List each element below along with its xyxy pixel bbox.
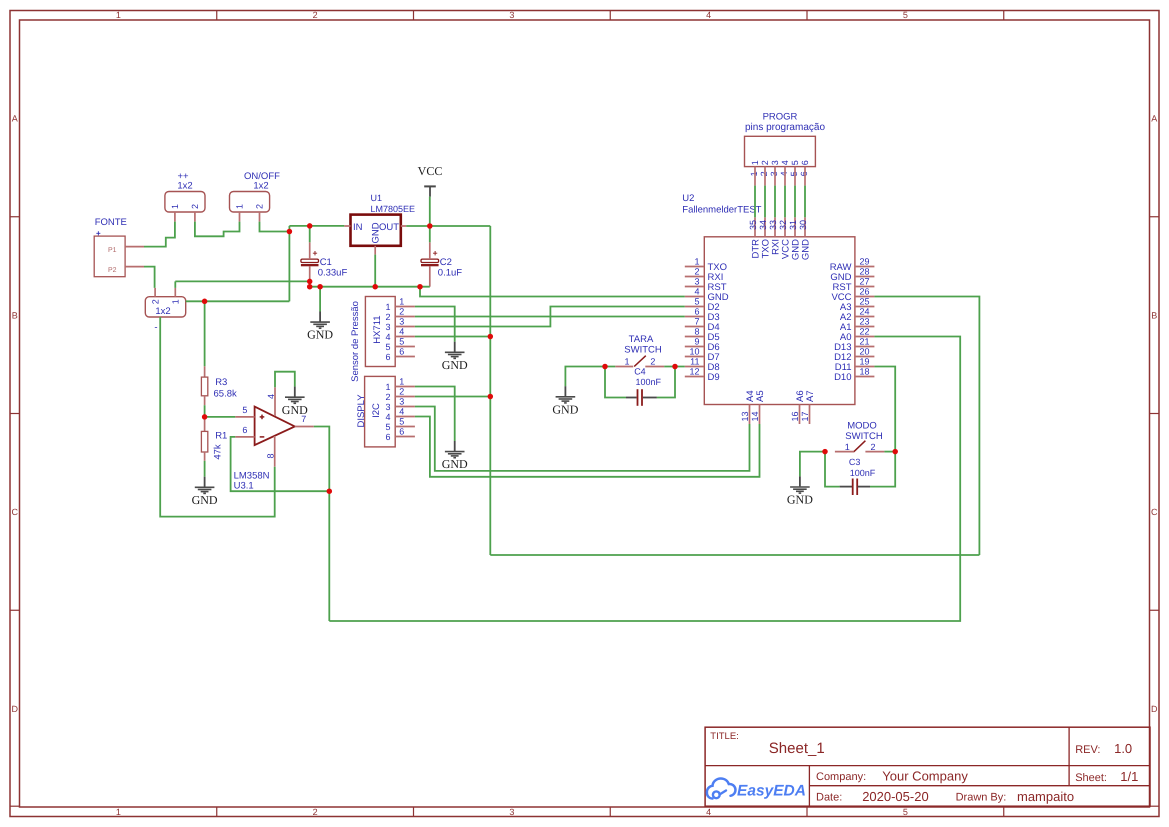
1x2 pin 2 stub <box>154 288 156 297</box>
svg-text:1x2: 1x2 <box>155 306 170 317</box>
junction HX711 pin4 VCC <box>488 334 494 340</box>
svg-text:6: 6 <box>385 352 390 362</box>
svg-text:2: 2 <box>759 171 769 176</box>
svg-text:23: 23 <box>860 317 870 327</box>
svg-text:1/1: 1/1 <box>1120 769 1138 784</box>
svg-text:R1: R1 <box>215 430 227 441</box>
junction U1 GND at rail2 <box>372 284 378 290</box>
wire C3 loop left <box>825 452 840 487</box>
svg-text:GND: GND <box>552 402 578 416</box>
capacitor C2 0.1uF <box>421 248 462 278</box>
wire I2C pin4 to U2 A5 pin14 <box>415 417 760 477</box>
svg-text:6: 6 <box>800 160 810 165</box>
svg-text:3: 3 <box>385 402 390 412</box>
svg-text:0.33uF: 0.33uF <box>318 267 348 278</box>
ground under R1 <box>192 477 218 507</box>
ground at TARA switch <box>552 386 578 416</box>
++ pin 2 stub <box>194 212 196 222</box>
wire C3 loop right <box>870 452 895 487</box>
wire I2C pin3 to U2 A4 pin13 <box>415 407 750 471</box>
wire U1 GND pin down to rail <box>374 255 376 287</box>
svg-text:pins programação: pins programação <box>745 122 825 133</box>
ground at I2C pin1 <box>442 441 468 471</box>
wire ON/OFF pin2 to node <box>260 222 290 232</box>
svg-text:16: 16 <box>790 411 800 421</box>
svg-text:EasyEDA: EasyEDA <box>737 782 806 799</box>
svg-text:4: 4 <box>780 160 790 165</box>
wire C1 top connection <box>309 226 311 242</box>
svg-text:4: 4 <box>266 394 276 399</box>
svg-text:D9: D9 <box>708 372 720 383</box>
svg-text:3: 3 <box>769 171 779 176</box>
svg-text:11: 11 <box>690 357 699 367</box>
svg-text:GND: GND <box>787 493 813 507</box>
svg-text:3: 3 <box>509 807 514 817</box>
svg-text:SWITCH: SWITCH <box>624 344 662 355</box>
pin P2 stub <box>125 266 144 268</box>
junction R3-R1 divider node <box>202 414 208 420</box>
svg-text:47k: 47k <box>212 444 223 460</box>
svg-text:22: 22 <box>860 327 870 337</box>
wire VCC vertical x=490 <box>489 226 491 555</box>
svg-text:18: 18 <box>860 367 870 377</box>
wire U1 IN rail <box>289 225 344 227</box>
svg-text:6: 6 <box>799 171 809 176</box>
svg-text:6: 6 <box>399 347 404 357</box>
svg-text:32: 32 <box>778 220 788 230</box>
svg-text:U3.1: U3.1 <box>234 480 254 491</box>
1x2 pin 1 stub <box>174 288 176 297</box>
wire gnd rail 1 (y=281) <box>175 280 309 282</box>
U3.1 pin 7 output stub <box>295 414 314 426</box>
svg-text:1: 1 <box>385 382 390 392</box>
ON/OFF pin 2 stub <box>259 212 261 222</box>
connector Sensor de Pressao HX711 <box>350 297 404 382</box>
svg-text:24: 24 <box>860 307 870 317</box>
svg-text:mampaito: mampaito <box>1017 789 1074 804</box>
svg-text:1: 1 <box>235 204 245 209</box>
svg-text:13: 13 <box>740 411 750 421</box>
svg-text:6: 6 <box>694 307 699 317</box>
junction C1 at rail1 <box>307 279 313 285</box>
wire U1 OUT rail to VCC corner <box>406 225 490 227</box>
pin P1 stub <box>125 246 144 248</box>
svg-text:-: - <box>154 322 157 333</box>
svg-text:21: 21 <box>860 337 870 347</box>
svg-text:GND: GND <box>192 493 218 507</box>
svg-text:C3: C3 <box>849 457 861 467</box>
C1 top lead <box>309 242 311 259</box>
svg-text:27: 27 <box>860 277 870 287</box>
svg-text:2: 2 <box>650 356 655 366</box>
svg-text:2: 2 <box>190 204 200 209</box>
U3.1 pin 8 V- stub <box>266 436 276 467</box>
wire node to 1x2 row <box>186 300 290 302</box>
wire ++ pin2 to ON/OFF pin1 <box>195 222 240 237</box>
svg-text:2: 2 <box>399 387 404 397</box>
svg-text:2020-05-20: 2020-05-20 <box>862 789 929 804</box>
svg-text:29: 29 <box>860 257 870 267</box>
junction R3 node <box>202 299 208 305</box>
I2C pin stubs <box>395 387 415 437</box>
svg-text:A: A <box>12 114 18 124</box>
svg-text:20: 20 <box>860 347 870 357</box>
svg-text:2: 2 <box>313 10 318 20</box>
wire MODO right to riser <box>884 451 895 453</box>
connector DISPLY I2C <box>356 376 404 447</box>
capacitor C3 100nF <box>840 457 876 495</box>
svg-text:FallenmelderTEST: FallenmelderTEST <box>682 205 761 216</box>
U1 OUT pin stub <box>401 225 406 227</box>
svg-text:U1: U1 <box>371 193 383 203</box>
++ pin 1 stub <box>174 212 176 222</box>
svg-text:1.0: 1.0 <box>1114 741 1132 756</box>
svg-text:1: 1 <box>694 257 699 267</box>
svg-text:5: 5 <box>385 342 390 352</box>
svg-text:I2C: I2C <box>371 403 382 418</box>
wire vertical feed at x=289 <box>288 226 290 301</box>
svg-text:+: + <box>433 248 438 258</box>
connector 1x2 (flipped, negative rail) <box>145 297 185 333</box>
svg-text:1x2: 1x2 <box>177 181 192 192</box>
svg-text:5: 5 <box>789 171 799 176</box>
svg-text:4: 4 <box>706 10 711 20</box>
svg-text:3: 3 <box>509 10 514 20</box>
switch TARA SWITCH <box>615 334 664 367</box>
junction C1 at rail2 <box>307 284 313 290</box>
connector FONTE (P1/P2 source) <box>94 217 127 277</box>
svg-text:8: 8 <box>266 453 276 458</box>
svg-text:R3: R3 <box>215 377 227 388</box>
svg-text:4: 4 <box>385 332 390 342</box>
svg-text:5: 5 <box>694 297 699 307</box>
svg-text:GND: GND <box>307 328 333 342</box>
svg-text:35: 35 <box>748 220 758 230</box>
U3.1 pin 5 non-inverting input stub <box>235 405 254 417</box>
svg-text:4: 4 <box>706 807 711 817</box>
wire TARA left to GND <box>565 367 615 387</box>
svg-text:P2: P2 <box>108 267 117 274</box>
svg-text:C: C <box>1151 507 1158 517</box>
svg-text:6: 6 <box>399 427 404 437</box>
ground at HX711 pin1 <box>442 342 468 372</box>
junction TARA left node <box>602 364 608 370</box>
svg-text:1: 1 <box>116 807 121 817</box>
op-amp U3.1 LM358N <box>234 407 295 492</box>
ON/OFF pin 1 stub <box>239 212 241 222</box>
svg-text:28: 28 <box>860 267 870 277</box>
svg-text:12: 12 <box>689 367 699 377</box>
IC U2 FallenmelderTEST <box>682 193 855 405</box>
wire VCC symbol drop <box>429 197 431 226</box>
svg-text:Date:: Date: <box>816 792 842 804</box>
wire opamp pin6 feedback loop <box>231 437 330 491</box>
capacitor C4 100nF <box>626 367 662 406</box>
svg-text:+: + <box>313 248 318 258</box>
U2 left pins 1-12 <box>685 257 729 384</box>
wire HX711 pin3 to U2 D2 <box>415 307 685 327</box>
svg-text:5: 5 <box>399 337 404 347</box>
svg-text:1: 1 <box>750 160 760 165</box>
svg-text:1: 1 <box>171 299 181 304</box>
svg-text:GND: GND <box>801 239 812 260</box>
svg-text:REV:: REV: <box>1075 744 1100 756</box>
ground at opamp pin4 <box>282 387 308 417</box>
svg-text:GND: GND <box>442 358 468 372</box>
wire VCC bottom run y=555 <box>490 554 979 556</box>
svg-text:VCC: VCC <box>418 164 443 178</box>
svg-text:5: 5 <box>399 417 404 427</box>
svg-text:P1: P1 <box>108 247 117 254</box>
junction opamp feedback node <box>327 488 333 494</box>
svg-text:GND: GND <box>371 222 382 243</box>
svg-text:0.1uF: 0.1uF <box>438 267 462 278</box>
svg-text:2: 2 <box>313 807 318 817</box>
junction rail2 branch to U2 <box>417 284 423 290</box>
wire I2C pin2 to VCC vertical <box>415 396 490 398</box>
wire C1 bottom between rails <box>309 281 311 286</box>
svg-text:1: 1 <box>749 171 759 176</box>
svg-text:Sheet:: Sheet: <box>1075 772 1107 784</box>
wire R1 bottom to GND <box>204 461 206 477</box>
svg-text:34: 34 <box>758 220 768 230</box>
connector ++ 1x2 <box>165 171 205 212</box>
svg-text:1: 1 <box>624 356 629 366</box>
svg-text:SWITCH: SWITCH <box>845 431 883 442</box>
svg-text:LM7805EE: LM7805EE <box>371 204 416 214</box>
svg-text:33: 33 <box>768 220 778 230</box>
svg-text:D10: D10 <box>834 372 851 383</box>
svg-text:A5: A5 <box>755 390 766 402</box>
svg-text:100nF: 100nF <box>850 468 876 478</box>
junction C1 top on IN rail <box>307 223 313 229</box>
svg-text:2: 2 <box>255 204 265 209</box>
PROGR pin stubs <box>755 167 805 186</box>
wire HX711 pin1 to GND <box>415 307 455 342</box>
svg-text:1: 1 <box>845 442 850 452</box>
wire VCC riser to U2 pin26 <box>874 297 979 556</box>
svg-text:6: 6 <box>242 425 247 435</box>
svg-text:2: 2 <box>385 312 390 322</box>
svg-text:D: D <box>1151 704 1158 714</box>
svg-text:25: 25 <box>860 297 870 307</box>
wire C4 loop right <box>657 367 675 398</box>
HX711 pin stubs <box>395 307 415 357</box>
svg-text:MODO: MODO <box>847 420 877 431</box>
svg-text:PROGR: PROGR <box>763 111 798 122</box>
capacitor C1 0.33uF <box>301 248 348 278</box>
U1 GND pin stub <box>374 246 376 255</box>
svg-text:5: 5 <box>385 422 390 432</box>
wire node down to R3 <box>204 301 206 366</box>
junction ON/OFF node <box>287 229 293 235</box>
svg-text:B: B <box>1151 310 1157 320</box>
svg-text:2: 2 <box>870 442 875 452</box>
svg-text:GND: GND <box>442 457 468 471</box>
svg-text:14: 14 <box>750 411 760 421</box>
wire P2 to 1x2 pin2 <box>144 267 155 288</box>
wire HX711 pin2 to U2 D3 <box>415 316 685 318</box>
wire opamp pin4 to GND <box>275 372 295 388</box>
svg-text:1: 1 <box>399 297 404 307</box>
svg-text:DISPLY: DISPLY <box>356 394 367 428</box>
svg-text:Company:: Company: <box>816 771 866 783</box>
svg-text:U2: U2 <box>682 193 694 204</box>
C2 bottom lead <box>429 266 431 286</box>
wire HX711 pin4 to VCC vertical <box>415 336 490 338</box>
junction MODO right node <box>892 449 898 455</box>
svg-text:7: 7 <box>694 317 699 327</box>
resistor R1 47k <box>201 420 227 461</box>
wire gnd rail branch to U2 pin4 GND <box>420 287 685 297</box>
wire left negative rail down <box>160 317 275 517</box>
wire TARA to U2 D8 pin11 <box>664 366 685 368</box>
svg-text:Your Company: Your Company <box>882 769 968 784</box>
C1 bottom lead <box>309 266 311 281</box>
svg-text:2: 2 <box>399 307 404 317</box>
svg-text:3: 3 <box>770 160 780 165</box>
svg-text:17: 17 <box>800 411 810 421</box>
svg-text:1x2: 1x2 <box>253 181 268 192</box>
svg-text:5: 5 <box>903 807 908 817</box>
wire 1x2 pin1 up to gnd rail <box>174 281 176 288</box>
svg-text:FONTE: FONTE <box>95 217 127 228</box>
wire P1 to ++ pin1 <box>144 222 175 247</box>
svg-text:GND: GND <box>282 403 308 417</box>
svg-text:Sensor de Pressão: Sensor de Pressão <box>350 301 361 382</box>
junction VCC on OUT rail <box>427 223 433 229</box>
svg-text:Drawn By:: Drawn By: <box>956 792 1007 804</box>
ground under C1 <box>307 287 333 342</box>
U2 bottom pins 13,14,16,17 <box>740 390 816 424</box>
svg-text:10: 10 <box>689 347 699 357</box>
svg-text:31: 31 <box>788 220 798 230</box>
svg-text:8: 8 <box>694 327 699 337</box>
svg-text:3: 3 <box>694 277 699 287</box>
svg-text:5: 5 <box>242 405 247 415</box>
wire U2 D11 pin19 to MODO <box>874 367 895 452</box>
wire R3 R1 junction to opamp pin5 <box>204 405 206 419</box>
svg-text:4: 4 <box>385 412 390 422</box>
svg-text:19: 19 <box>860 357 870 367</box>
U2 right pins 29-18 <box>830 257 875 384</box>
svg-text:HX711: HX711 <box>372 315 383 343</box>
svg-text:30: 30 <box>798 220 808 230</box>
wire I2C pin1 to GND <box>415 387 455 442</box>
connector ON/OFF 1x2 <box>230 171 281 212</box>
svg-text:4: 4 <box>779 171 789 176</box>
svg-text:1: 1 <box>385 302 390 312</box>
svg-text:C: C <box>11 507 18 517</box>
svg-text:IN: IN <box>353 222 363 233</box>
regulator U1 LM7805EE <box>351 193 416 246</box>
svg-text:5: 5 <box>903 10 908 20</box>
svg-text:B: B <box>12 310 18 320</box>
wire opamp output down <box>314 427 330 622</box>
svg-text:4: 4 <box>399 327 404 337</box>
svg-text:9: 9 <box>694 337 699 347</box>
junction MODO left node <box>822 449 828 455</box>
wire MODO left to GND <box>800 452 825 477</box>
wires PROGR to U2 top pins <box>755 186 805 218</box>
junction I2C pin2 VCC <box>488 394 494 400</box>
svg-text:26: 26 <box>860 287 870 297</box>
svg-text:Sheet_1: Sheet_1 <box>769 740 825 757</box>
svg-text:TITLE:: TITLE: <box>710 731 739 742</box>
svg-text:65.8k: 65.8k <box>214 389 237 400</box>
EasyEDA logo <box>707 779 806 800</box>
title block <box>705 727 1150 806</box>
junction TARA right node <box>672 364 678 370</box>
svg-text:5: 5 <box>790 160 800 165</box>
power flag VCC <box>418 164 443 197</box>
svg-text:OUT: OUT <box>379 222 399 233</box>
svg-text:2: 2 <box>385 392 390 402</box>
U1 IN pin stub <box>344 225 350 227</box>
svg-text:A7: A7 <box>805 390 816 402</box>
svg-text:1: 1 <box>116 10 121 20</box>
C2 top lead <box>429 242 431 259</box>
svg-text:3: 3 <box>399 317 404 327</box>
svg-text:2: 2 <box>150 299 160 304</box>
svg-text:6: 6 <box>385 432 390 442</box>
svg-text:100nF: 100nF <box>636 377 662 387</box>
svg-text:A: A <box>1151 114 1157 124</box>
svg-text:4: 4 <box>694 287 699 297</box>
wire C2 top connection <box>429 226 431 242</box>
wire output run to U2 A0 pin22 <box>329 337 960 622</box>
wire C4 loop left <box>605 367 626 398</box>
svg-text:4: 4 <box>399 407 404 417</box>
U2 top pins 35-30 <box>748 217 812 260</box>
svg-text:1: 1 <box>170 204 180 209</box>
svg-text:2: 2 <box>694 267 699 277</box>
junction gnd stem at rail2 <box>317 284 323 290</box>
resistor R3 65.8k <box>201 366 237 405</box>
U3.1 pin 4 V+ stub <box>266 387 276 416</box>
svg-text:1: 1 <box>399 377 404 387</box>
svg-text:3: 3 <box>385 322 390 332</box>
connector PROGR pins programacao <box>745 111 826 176</box>
svg-text:3: 3 <box>399 397 404 407</box>
svg-text:D: D <box>11 704 18 714</box>
U3.1 pin 6 inverting input stub <box>235 425 254 437</box>
ground at MODO switch <box>787 476 813 506</box>
wire gnd rail 2 (y=287) <box>310 286 430 288</box>
switch MODO SWITCH <box>835 420 885 452</box>
svg-text:2: 2 <box>760 160 770 165</box>
svg-text:C4: C4 <box>634 367 646 377</box>
